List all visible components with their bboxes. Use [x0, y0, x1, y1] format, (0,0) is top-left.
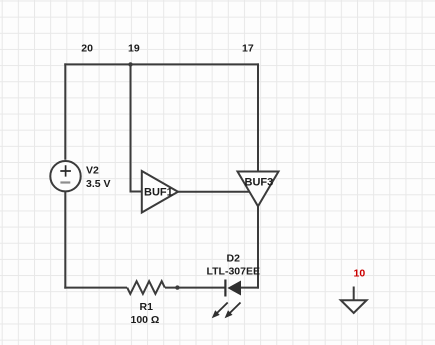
svg-text:LTL-307EE: LTL-307EE [207, 266, 260, 278]
svg-text:BUF1: BUF1 [144, 187, 173, 199]
LED D2 emission arrow 2 [225, 303, 241, 319]
ground symbol [341, 287, 367, 314]
wire BUF1 output to BUF3 left side [178, 191, 250, 193]
svg-text:BUF3: BUF3 [245, 177, 274, 189]
op-amp buffer BUF1 [142, 171, 178, 213]
junction dot R1-D2 [175, 285, 179, 289]
voltage source V2 [50, 161, 80, 191]
wire R1 to D2 cathode [165, 287, 225, 289]
svg-text:100 Ω: 100 Ω [131, 314, 160, 326]
svg-text:V2: V2 [86, 165, 99, 177]
svg-text:19: 19 [128, 43, 140, 55]
op-amp buffer BUF3 [238, 172, 279, 207]
wire BUF3 output down [257, 206, 259, 288]
wire right vertical (node 17 down to BUF3 input) [257, 63, 259, 171]
wire V2 bottom to bottom-left corner [64, 191, 66, 288]
wire bottom horizontal to R1 [64, 287, 127, 289]
svg-text:3.5 V: 3.5 V [86, 178, 111, 190]
svg-text:D2: D2 [227, 253, 241, 265]
junction node 19 dot [128, 62, 132, 66]
wire node 19 drop to BUF1 input [131, 64, 142, 192]
LED D2 emission arrow 1 [212, 303, 228, 319]
wire D2 anode to BUF3 output [241, 287, 259, 289]
resistor R1 [127, 281, 165, 294]
svg-text:17: 17 [242, 43, 254, 55]
wire top-left vertical (node 20 to V2 top) [64, 63, 66, 159]
svg-text:10: 10 [354, 268, 366, 280]
svg-text:20: 20 [81, 43, 93, 55]
LED D2 [225, 280, 241, 297]
wire top horizontal (node 20 - 19 - 17) [64, 63, 259, 65]
svg-text:R1: R1 [140, 301, 154, 313]
